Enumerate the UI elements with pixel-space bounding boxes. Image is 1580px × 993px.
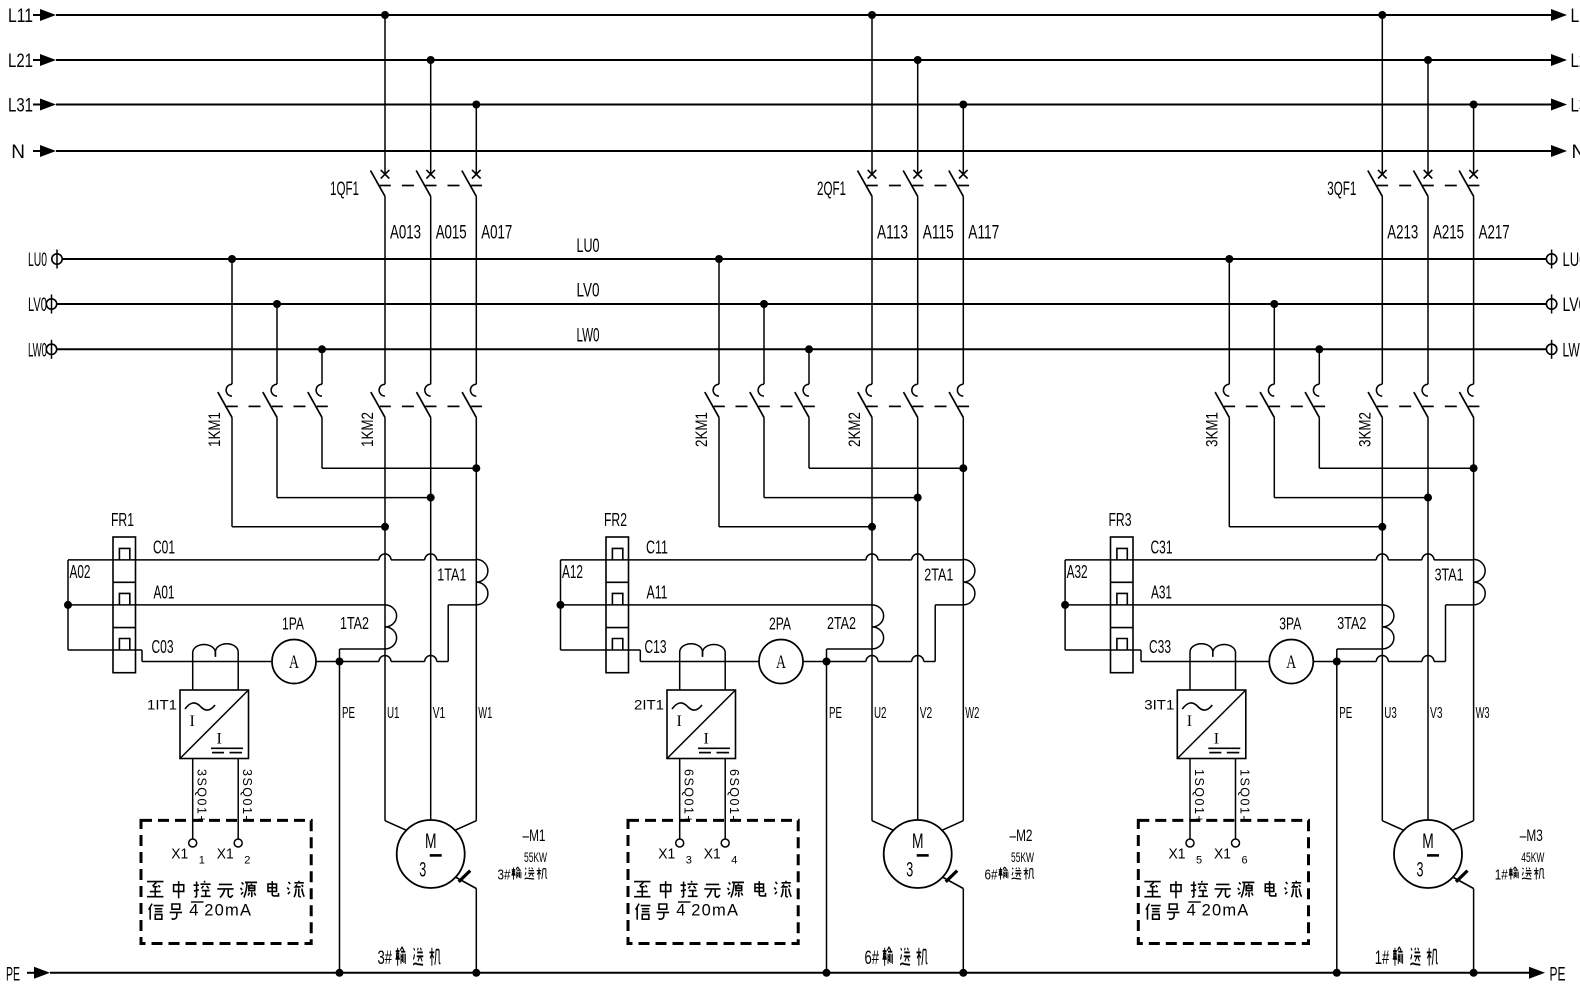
svg-text:PE: PE [342, 705, 355, 722]
svg-text:L21: L21 [8, 51, 33, 72]
svg-text:U2: U2 [874, 705, 887, 722]
svg-text:20mA: 20mA [691, 902, 739, 920]
svg-text:3KM2: 3KM2 [1356, 412, 1374, 447]
svg-text:1KM2: 1KM2 [359, 412, 377, 447]
svg-text:LU0: LU0 [577, 236, 600, 257]
svg-text:55KW: 55KW [1011, 849, 1034, 865]
svg-text:N: N [1572, 142, 1580, 163]
svg-text:3KM1: 3KM1 [1203, 412, 1221, 447]
svg-text:–M3: –M3 [1520, 826, 1543, 845]
svg-text:2: 2 [244, 855, 250, 867]
svg-text:PE: PE [829, 705, 842, 722]
svg-text:6SQ01+: 6SQ01+ [682, 769, 696, 824]
svg-text:3TA1: 3TA1 [1435, 565, 1464, 585]
svg-text:LV0: LV0 [577, 281, 600, 302]
svg-text:A12: A12 [562, 562, 583, 582]
svg-text:1QF1: 1QF1 [330, 179, 359, 200]
svg-text:LV0: LV0 [1563, 295, 1580, 316]
svg-text:3: 3 [1417, 859, 1424, 882]
svg-text:A115: A115 [923, 223, 954, 244]
svg-text:X1: X1 [171, 847, 188, 863]
svg-text:A117: A117 [968, 223, 999, 244]
svg-text:3IT1: 3IT1 [1144, 697, 1174, 713]
svg-text:A017: A017 [481, 223, 512, 244]
svg-text:LU0: LU0 [1563, 250, 1580, 271]
svg-text:FR1: FR1 [111, 510, 134, 530]
svg-text:2PA: 2PA [769, 614, 791, 634]
svg-text:FR2: FR2 [604, 510, 627, 530]
svg-text:C13: C13 [645, 636, 667, 657]
svg-text:4: 4 [1187, 902, 1196, 920]
svg-text:A: A [1286, 653, 1296, 673]
svg-text:C33: C33 [1149, 636, 1171, 657]
svg-text:A013: A013 [390, 223, 421, 244]
svg-text:A217: A217 [1479, 223, 1510, 244]
svg-text:3: 3 [419, 859, 426, 882]
svg-text:3SQ01-: 3SQ01- [240, 769, 254, 821]
svg-text:3SQ01+: 3SQ01+ [195, 769, 209, 824]
svg-text:1IT1: 1IT1 [147, 697, 177, 713]
svg-text:A: A [289, 653, 299, 673]
svg-text:I: I [190, 713, 195, 730]
svg-text:20mA: 20mA [1202, 902, 1250, 920]
svg-text:C01: C01 [153, 537, 175, 558]
svg-text:1SQ01+: 1SQ01+ [1192, 769, 1206, 824]
svg-text:1TA1: 1TA1 [437, 565, 466, 585]
svg-text:2TA1: 2TA1 [924, 565, 953, 585]
svg-text:U3: U3 [1384, 705, 1397, 722]
svg-text:C11: C11 [646, 537, 668, 558]
svg-text:2KM2: 2KM2 [846, 412, 864, 447]
svg-text:3: 3 [906, 859, 913, 882]
svg-text:LV0: LV0 [28, 295, 47, 316]
svg-text:1#: 1# [1495, 867, 1509, 884]
svg-text:PE: PE [1550, 965, 1566, 986]
svg-text:V1: V1 [433, 705, 446, 722]
svg-text:C03: C03 [152, 636, 174, 657]
svg-text:3TA2: 3TA2 [1337, 613, 1366, 633]
svg-text:45KW: 45KW [1521, 849, 1544, 865]
svg-text:6: 6 [1242, 855, 1248, 867]
svg-text:1PA: 1PA [282, 614, 304, 634]
svg-text:A215: A215 [1433, 223, 1464, 244]
svg-text:1SQ01-: 1SQ01- [1237, 769, 1251, 821]
svg-text:C31: C31 [1151, 537, 1173, 558]
svg-text:A: A [776, 653, 786, 673]
svg-text:A02: A02 [70, 562, 91, 582]
svg-text:M: M [912, 830, 924, 853]
svg-text:V2: V2 [920, 705, 933, 722]
svg-text:LU0: LU0 [28, 250, 47, 271]
svg-text:4: 4 [676, 902, 685, 920]
svg-text:3#: 3# [378, 948, 393, 969]
svg-text:LW0: LW0 [28, 340, 47, 361]
svg-text:PE: PE [1339, 705, 1352, 722]
svg-text:I: I [217, 731, 222, 748]
svg-text:LW0: LW0 [1563, 340, 1580, 361]
svg-text:L11: L11 [8, 6, 33, 27]
svg-text:M: M [425, 830, 437, 853]
svg-text:X1: X1 [704, 847, 721, 863]
svg-text:A015: A015 [436, 223, 467, 244]
svg-text:I: I [1214, 731, 1219, 748]
svg-text:X1: X1 [1169, 847, 1186, 863]
svg-text:2KM1: 2KM1 [693, 412, 711, 447]
svg-text:L21: L21 [1571, 51, 1580, 72]
svg-text:1#: 1# [1375, 948, 1390, 969]
svg-text:A31: A31 [1151, 582, 1172, 603]
svg-text:2QF1: 2QF1 [817, 179, 846, 200]
svg-text:M: M [1422, 830, 1434, 853]
svg-text:4: 4 [189, 902, 198, 920]
svg-text:1: 1 [199, 855, 205, 867]
svg-text:6SQ01-: 6SQ01- [727, 769, 741, 821]
svg-text:A113: A113 [877, 223, 908, 244]
svg-text:–M2: –M2 [1010, 826, 1033, 845]
svg-text:A32: A32 [1067, 562, 1088, 582]
svg-text:W3: W3 [1476, 705, 1490, 722]
svg-text:FR3: FR3 [1109, 510, 1132, 530]
svg-text:I: I [677, 713, 682, 730]
svg-text:LW0: LW0 [577, 326, 600, 347]
svg-text:3QF1: 3QF1 [1327, 179, 1356, 200]
svg-text:6#: 6# [985, 867, 999, 884]
svg-text:W1: W1 [478, 705, 492, 722]
svg-text:A01: A01 [154, 582, 175, 603]
svg-text:L31: L31 [8, 96, 33, 117]
svg-text:L31: L31 [1571, 96, 1580, 117]
svg-text:X1: X1 [217, 847, 234, 863]
svg-text:1KM1: 1KM1 [206, 412, 224, 447]
svg-text:20mA: 20mA [204, 902, 252, 920]
svg-text:PE: PE [6, 965, 20, 986]
svg-text:U1: U1 [387, 705, 400, 722]
svg-text:I: I [704, 731, 709, 748]
svg-text:V3: V3 [1430, 705, 1443, 722]
svg-text:6#: 6# [865, 948, 880, 969]
svg-text:2TA2: 2TA2 [827, 613, 856, 633]
svg-text:N: N [11, 142, 25, 163]
svg-text:4: 4 [731, 855, 737, 867]
svg-text:2IT1: 2IT1 [634, 697, 664, 713]
svg-text:X1: X1 [658, 847, 675, 863]
svg-text:A11: A11 [647, 582, 668, 603]
svg-text:W2: W2 [965, 705, 979, 722]
svg-text:A213: A213 [1387, 223, 1418, 244]
svg-text:X1: X1 [1214, 847, 1231, 863]
svg-text:3: 3 [686, 855, 692, 867]
svg-text:5: 5 [1196, 855, 1202, 867]
svg-text:3PA: 3PA [1279, 614, 1301, 634]
svg-text:I: I [1187, 713, 1192, 730]
svg-text:3#: 3# [498, 867, 512, 884]
svg-text:–M1: –M1 [523, 826, 546, 845]
svg-text:55KW: 55KW [524, 849, 547, 865]
svg-text:L11: L11 [1571, 6, 1580, 27]
svg-text:1TA2: 1TA2 [340, 613, 369, 633]
